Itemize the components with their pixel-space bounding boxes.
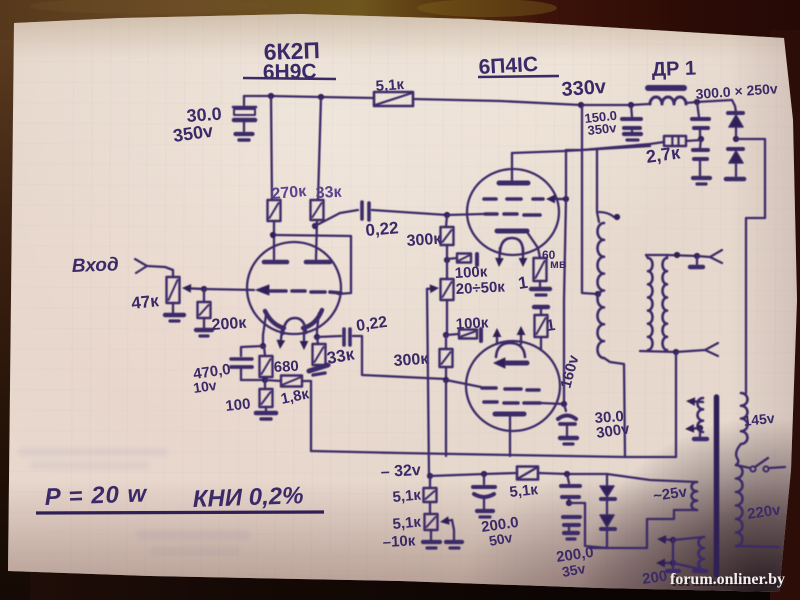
node choke-right junction	[694, 99, 700, 105]
winding ~25v	[692, 482, 698, 510]
tube V3 cathode bar	[495, 412, 524, 417]
ground secondary top	[690, 256, 703, 267]
wire 2,7k to doubler node	[686, 140, 701, 141]
wire 33k anode riser	[318, 97, 321, 200]
fuse 5,1k top	[374, 92, 413, 106]
node heater lower taps	[670, 537, 676, 543]
underline tube1	[243, 78, 336, 79]
svg-text:– 32v: – 32v	[380, 462, 421, 481]
svg-text:КНИ 0,2%: КНИ 0,2%	[192, 482, 304, 513]
node plate2 junction	[312, 223, 318, 229]
choke DR1	[648, 88, 686, 104]
node cathode2 junction	[314, 334, 320, 340]
tube V1 6N9S envelope	[247, 242, 341, 334]
svg-text:100: 100	[225, 395, 252, 415]
node -32v junction	[427, 473, 433, 479]
svg-text:680: 680	[273, 358, 299, 376]
potentiometer 47k	[167, 277, 180, 303]
wire secondary bottom drop	[675, 352, 677, 457]
resistor R 33k cathode	[313, 337, 326, 365]
tube V1 grid arrow	[256, 285, 269, 295]
capacitor 200.0/50v	[473, 474, 495, 509]
ground below 60mV	[531, 281, 550, 295]
winding heater 6,3v upper	[698, 398, 704, 432]
screen arrow to rail	[555, 198, 564, 200]
wire plate2 to coupling cap	[315, 210, 358, 226]
svg-text:200: 200	[641, 568, 668, 588]
svg-text:300к: 300к	[393, 351, 430, 370]
diode D3	[600, 474, 615, 499]
wire 0,22 to output grid	[372, 210, 447, 215]
wire 330V drop to OPT tap	[582, 105, 598, 294]
wire 145v to 220v tap	[736, 444, 741, 465]
wire 20-50k bottom	[446, 300, 448, 333]
wire 0,22 second to lower grid	[353, 336, 446, 379]
wire V3 screen to bus	[540, 403, 564, 404]
diode D4	[600, 499, 615, 529]
ground below C1	[236, 134, 253, 140]
ground below 200.0/35v	[564, 533, 578, 539]
wire B+ rail right segment	[686, 100, 736, 112]
wire series cap tap	[569, 503, 607, 548]
capacitor 200.0/35v upper	[561, 474, 580, 503]
svg-text:P = 20 w: P = 20 w	[44, 480, 148, 511]
tube V2 grid dashes	[485, 214, 540, 215]
wire 2,7k to screens	[566, 142, 664, 150]
OPT primary winding	[598, 223, 605, 358]
ground below 30.0/300v	[560, 438, 577, 444]
wire plate1 to grid2 loop	[275, 235, 351, 294]
ground below C2	[624, 134, 641, 140]
wire diode chain bottom	[606, 529, 608, 548]
wire 270k to anode	[273, 221, 275, 259]
svg-text:0,22: 0,22	[365, 218, 400, 240]
terminal bar below D2	[726, 177, 744, 182]
wire cathode2 to cap	[317, 336, 341, 337]
node screen junction lower	[561, 401, 567, 407]
wire V3 cathode down	[509, 417, 511, 456]
node primary terminal	[599, 212, 614, 217]
underline spec	[36, 512, 324, 513]
ground slant below 33k	[309, 365, 328, 375]
ground heater lower right	[694, 566, 706, 571]
diode D2	[728, 149, 743, 176]
wire lower grid riser down	[445, 380, 447, 456]
tube V3 plate bar with arrow	[494, 358, 527, 368]
wiper arrow bias pot	[440, 516, 454, 540]
capacitor 0,22 second	[344, 329, 350, 345]
winding 145v	[741, 393, 748, 444]
winding 220v	[736, 465, 743, 546]
node screen junction upper	[563, 196, 569, 202]
wire secondary top bus	[646, 255, 648, 258]
heater lower arrows	[656, 535, 673, 567]
node 300k junction	[446, 245, 448, 260]
input label arrow	[135, 259, 173, 277]
speaker fork top	[697, 250, 722, 263]
svg-text:6Н9С: 6Н9С	[263, 60, 317, 84]
tube V3 grid dashes	[482, 388, 539, 390]
wire anode top line	[512, 146, 650, 153]
trimmer 100k lower	[446, 329, 481, 341]
svg-text:forum.onliner.by: forum.onliner.by	[670, 571, 785, 588]
wiper arrow 20-50k	[427, 288, 430, 291]
wire anode line to OPT primary	[597, 150, 599, 222]
fuse 5,1k bias	[517, 467, 538, 480]
underline tube2	[478, 76, 559, 77]
ground below C4	[693, 178, 710, 184]
node grid-coupling junction	[444, 212, 450, 218]
winding heater lower	[699, 537, 705, 570]
svg-text:300к: 300к	[406, 231, 443, 250]
node wiper junction	[201, 286, 207, 292]
node choke-left junction	[628, 102, 634, 108]
wire -32v bus	[430, 473, 517, 476]
capacitor 200.0/35v lower	[563, 517, 580, 531]
resistor R 1,8k	[265, 376, 302, 387]
tube V1 cathode arcs	[265, 310, 322, 328]
heater arrows upper	[685, 397, 703, 433]
svg-text:5,1к: 5,1к	[392, 487, 422, 506]
node secondary bottom junction	[673, 349, 679, 355]
svg-text:350v: 350v	[587, 120, 618, 138]
node 680 bottom junction	[262, 377, 268, 383]
node plate1 junction	[270, 232, 276, 238]
node cathode1 junction	[260, 343, 266, 349]
svg-text:330v: 330v	[561, 76, 608, 101]
capacitor C3 (doubler top)	[692, 102, 709, 139]
wire feedback bottom run	[311, 451, 676, 457]
svg-text:Вход: Вход	[71, 254, 119, 277]
wire cathode1 lead	[263, 315, 266, 346]
trimmer 100k upper	[447, 254, 477, 266]
wire bias bus right	[538, 473, 607, 474]
svg-text:33к: 33к	[315, 184, 343, 202]
node OPT centre tap	[595, 291, 601, 297]
svg-text:мв: мв	[550, 257, 566, 271]
wire diode node to right riser	[736, 139, 765, 393]
node 200/35 junction	[564, 471, 570, 477]
ground below bias pot	[423, 530, 440, 548]
wire 25v loop	[607, 474, 697, 482]
potentiometer 5,1k/-10k	[425, 514, 438, 530]
node doubler mid-left	[698, 136, 704, 142]
capacitor 0,22 first	[362, 202, 369, 220]
diode D1	[728, 113, 743, 139]
capacitor 30.0/300v	[558, 404, 576, 436]
wire 33k to anode	[316, 220, 317, 259]
svg-text:270к: 270к	[271, 183, 308, 203]
tube V1 heater arrows	[277, 329, 309, 350]
wiper arrow 47k	[191, 287, 204, 290]
tube V3 screen dashes	[484, 402, 540, 403]
wire B+ rail left segment	[244, 96, 374, 98]
wire V3 grid feed	[446, 380, 481, 387]
ground below 200k	[196, 318, 212, 336]
wire 220v bottom lead	[736, 546, 779, 547]
tube V2 heater hump	[500, 238, 523, 252]
resistor R 200k	[198, 289, 211, 318]
node series cap junction	[566, 500, 572, 506]
resistor R 33k	[311, 200, 324, 220]
wire OPT primary bottom	[604, 358, 625, 457]
wire to 470uF cap	[241, 346, 263, 356]
svg-text:5,1к: 5,1к	[509, 481, 539, 501]
resistor R 270k	[268, 200, 281, 221]
node 330V junction	[578, 102, 584, 108]
resistor R 2,7k	[664, 136, 686, 146]
ground below 47k	[165, 303, 184, 321]
ground heater lower left	[667, 563, 679, 571]
wire cathode2 lead	[317, 313, 319, 337]
wire 1,8k to feedback riser	[302, 381, 311, 451]
capacitor C1 30.0/350v	[233, 96, 256, 131]
svg-text:145v: 145v	[743, 410, 776, 429]
resistor 1 heater dropper	[534, 307, 548, 350]
resistor 5,1k bias upper	[424, 476, 437, 514]
tube V1 plate1 bar	[264, 260, 287, 265]
ground below 200.0/50v	[477, 511, 493, 517]
resistor R 300k lower	[440, 335, 453, 367]
node 200/50 junction	[481, 471, 487, 477]
capacitor C4 (doubler bottom)	[693, 139, 708, 176]
wire wiper to grid	[204, 289, 254, 290]
tube V2 heater arrows	[495, 248, 527, 267]
svg-text:200к: 200к	[211, 315, 248, 334]
wire B+ rail middle segment	[413, 99, 649, 105]
tube V2 cathode bar	[497, 229, 527, 234]
svg-text:100к: 100к	[455, 314, 489, 333]
node rail-junction A	[268, 93, 274, 99]
tube V1 heater hump	[283, 318, 306, 334]
resistor R 680	[260, 346, 273, 377]
OPT secondary winding b	[663, 258, 668, 350]
node heater tap	[697, 425, 703, 431]
tube V2 screen dashes	[484, 197, 543, 201]
OPT secondary winding a	[648, 258, 653, 350]
tube V3 6P41S envelope	[466, 341, 560, 431]
svg-text:10v: 10v	[192, 377, 218, 396]
node lower grid junction	[445, 367, 447, 380]
capacitor 470.0/10v	[231, 359, 252, 380]
wire wiper riser to -32v	[427, 289, 429, 476]
tube V3 heater arrows	[493, 326, 526, 344]
tube V1 plate2 bar	[306, 260, 330, 265]
capacitor C2 150.0/350v	[622, 105, 641, 132]
wire 270k anode riser	[271, 96, 272, 200]
wire 25v loop return	[647, 510, 697, 548]
svg-text:47к: 47к	[130, 291, 160, 313]
tube V2 6P41S envelope	[467, 169, 559, 255]
resistor R 300k upper	[441, 215, 454, 245]
ground below wiper	[446, 542, 462, 548]
tube V3 heater hump	[496, 343, 525, 357]
svg-text:5,1к: 5,1к	[375, 76, 405, 95]
switch mains	[736, 458, 785, 472]
tube V1 grid dashes	[270, 291, 341, 293]
speaker fork bottom	[676, 343, 718, 356]
wire secondary bottom bus	[640, 351, 676, 352]
transformer core line	[714, 397, 720, 575]
svg-text:–10к: –10к	[382, 532, 416, 551]
node lower divider junction	[443, 332, 449, 338]
wire cap bottom to node	[241, 379, 265, 381]
tube V2 plate bar	[499, 153, 528, 183]
ground heater upper	[694, 428, 707, 439]
node diode junction	[733, 136, 739, 142]
resistor 60mV sense	[527, 232, 547, 281]
node secondary top junction	[674, 252, 680, 258]
svg-text:20÷50к: 20÷50к	[455, 278, 505, 298]
potentiometer 20-50k	[441, 260, 454, 300]
resistor R 100	[260, 382, 273, 407]
svg-text:ДР 1: ДР 1	[651, 57, 696, 81]
wire screen bus vertical	[564, 150, 566, 404]
ground below 100	[256, 407, 276, 419]
svg-text:5,1к: 5,1к	[392, 514, 422, 533]
wire bottom bus	[590, 547, 647, 549]
wire grid feed	[447, 214, 483, 215]
